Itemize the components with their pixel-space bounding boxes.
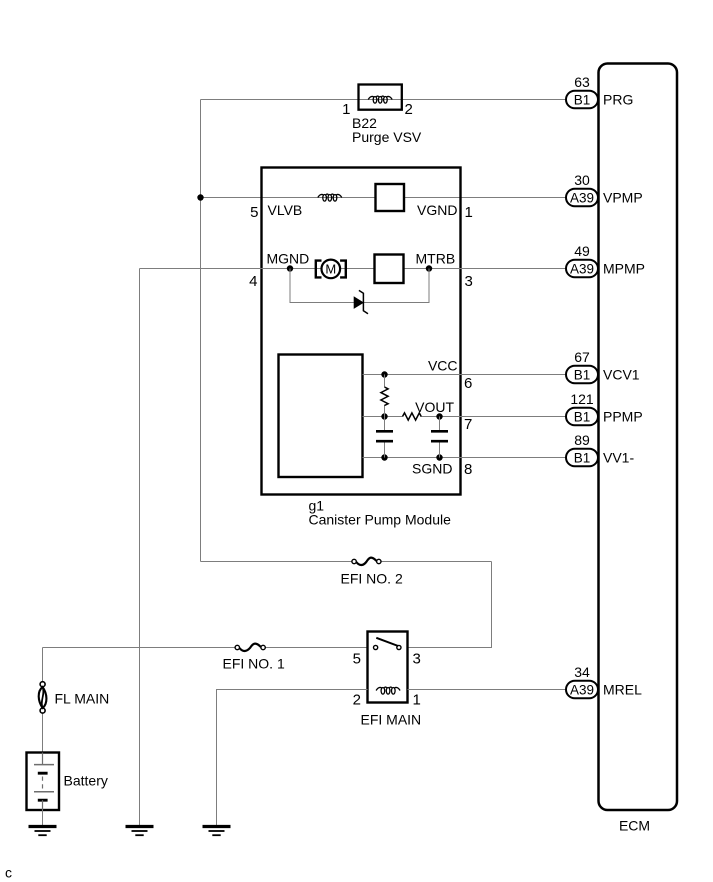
svg-text:PPMP: PPMP bbox=[603, 409, 643, 425]
svg-text:30: 30 bbox=[574, 172, 590, 188]
svg-text:A39: A39 bbox=[570, 190, 594, 205]
wire: MREL net relay pin 1 to ECM bbox=[408, 689, 567, 691]
svg-text:A39: A39 bbox=[570, 682, 594, 697]
junction VOUT right bbox=[436, 413, 442, 419]
svg-text:PRG: PRG bbox=[603, 92, 633, 108]
svg-text:2: 2 bbox=[353, 692, 361, 709]
svg-text:EFI MAIN: EFI MAIN bbox=[361, 712, 422, 728]
svg-text:EFI NO. 1: EFI NO. 1 bbox=[223, 656, 285, 672]
svg-text:3: 3 bbox=[413, 651, 421, 668]
connector pin A39-49 MPMP bbox=[566, 260, 598, 278]
svg-text:ECM: ECM bbox=[619, 818, 650, 834]
svg-text:B1: B1 bbox=[574, 450, 591, 465]
fusible link FL MAIN bbox=[39, 682, 47, 713]
junction VOUT left bbox=[381, 413, 387, 419]
svg-text:67: 67 bbox=[574, 349, 590, 365]
svg-text:2: 2 bbox=[405, 101, 413, 118]
svg-text:Battery: Battery bbox=[64, 773, 108, 789]
svg-text:4: 4 bbox=[249, 273, 257, 290]
svg-text:B1: B1 bbox=[574, 367, 591, 382]
fuse EFI NO. 1 bbox=[235, 644, 265, 651]
svg-text:5: 5 bbox=[250, 204, 258, 221]
svg-text:B1: B1 bbox=[574, 92, 591, 107]
svg-text:3: 3 bbox=[465, 273, 473, 290]
junction SGND right bbox=[436, 454, 442, 460]
relay switch contacts bbox=[374, 638, 402, 650]
connector pin A39-34 MREL bbox=[566, 681, 598, 699]
resistor divider vertical bbox=[381, 387, 388, 406]
pressure sensor block inside module bbox=[279, 355, 363, 478]
fuse EFI NO. 2 bbox=[352, 558, 381, 565]
pump motor M bbox=[316, 260, 346, 279]
connector pin B1-67 VCV1 bbox=[566, 366, 598, 384]
ECM box bbox=[599, 64, 678, 811]
wire: relay coil pin 2 to ground bbox=[217, 690, 368, 827]
connector pin B1-89 VV1- bbox=[566, 449, 598, 467]
wire: motor bypass loop bbox=[290, 269, 354, 303]
svg-text:34: 34 bbox=[574, 664, 590, 680]
wire: divider branch VCC to VOUT bbox=[384, 375, 386, 388]
wire: EFI NO. 1 circuit from FL MAIN bus to relay pin 5 bbox=[43, 647, 236, 649]
connector pin B1-121 PPMP bbox=[566, 408, 598, 426]
svg-text:MREL: MREL bbox=[603, 682, 642, 698]
svg-text:VV1-: VV1- bbox=[603, 450, 634, 466]
svg-text:Canister Pump Module: Canister Pump Module bbox=[309, 512, 452, 528]
svg-text:63: 63 bbox=[574, 74, 590, 90]
motor driver block square MTRB bbox=[375, 255, 404, 284]
svg-text:M: M bbox=[325, 262, 336, 277]
wire: MGND net from ground bus through pump motor to MTRB / ECM MPMP bbox=[140, 268, 567, 270]
svg-text:FL MAIN: FL MAIN bbox=[55, 691, 110, 707]
wire: EFI NO. 2 circuit from bus to relay pin 3 bbox=[201, 561, 355, 563]
capacitor left bbox=[376, 431, 393, 441]
connector pin B1-63 PRG bbox=[566, 91, 598, 109]
wire: SGND net from sensor block to ECM VV1- bbox=[363, 457, 567, 459]
svg-text:8: 8 bbox=[464, 461, 472, 478]
junction MTRB node bbox=[426, 265, 432, 271]
svg-text:VPMP: VPMP bbox=[603, 190, 643, 206]
svg-text:VLVB: VLVB bbox=[268, 202, 303, 218]
zener diode motor suppressor bbox=[354, 290, 368, 313]
svg-text:EFI NO. 2: EFI NO. 2 bbox=[341, 571, 403, 587]
svg-text:VCC: VCC bbox=[428, 358, 458, 374]
junction VCC divider tap bbox=[381, 371, 387, 377]
wire: right capacitor branch bbox=[439, 417, 441, 431]
svg-text:MPMP: MPMP bbox=[603, 261, 645, 277]
solenoid B22 coil bbox=[368, 96, 392, 103]
valve block square VGND bbox=[376, 184, 405, 211]
svg-text:1: 1 bbox=[413, 692, 421, 709]
ground at battery bbox=[29, 827, 57, 836]
wire: VLVB net from bus to canister pump module pin 5 and on to VGND / ECM VPMP bbox=[201, 197, 567, 199]
junction: bus tap to VLVB bbox=[197, 194, 203, 200]
ground at relay coil bbox=[203, 827, 231, 836]
relay coil bbox=[376, 687, 400, 694]
wire: MGND ground drop vertical bbox=[139, 269, 141, 827]
wire: FL MAIN vertical from EFI NO.1 wire to battery bbox=[42, 648, 44, 682]
svg-text:VOUT: VOUT bbox=[415, 399, 454, 415]
svg-text:5: 5 bbox=[353, 651, 361, 668]
canister pump module box g1 bbox=[262, 168, 461, 495]
svg-text:c: c bbox=[5, 865, 12, 881]
connector pin A39-30 VPMP bbox=[566, 189, 598, 207]
junction SGND left bbox=[381, 454, 387, 460]
junction MGND node bbox=[287, 265, 293, 271]
battery box bbox=[27, 753, 60, 811]
valve solenoid coil on VLVB line inside module bbox=[318, 194, 342, 201]
wire: left capacitor branch bbox=[384, 417, 386, 431]
svg-text:B1: B1 bbox=[574, 409, 591, 424]
capacitor right bbox=[431, 431, 448, 441]
ground at MGND drop bbox=[126, 827, 154, 836]
svg-text:1: 1 bbox=[465, 204, 473, 221]
svg-text:6: 6 bbox=[464, 375, 472, 392]
wire: battery+ feed from left vertical bus to B22 / purge VSV net PRG bbox=[201, 99, 567, 101]
wire: VCC net from sensor block to ECM VCV1 bbox=[363, 374, 567, 376]
svg-text:MTRB: MTRB bbox=[416, 251, 456, 267]
svg-text:121: 121 bbox=[570, 391, 594, 407]
svg-text:A39: A39 bbox=[570, 261, 594, 276]
svg-text:MGND: MGND bbox=[267, 251, 310, 267]
svg-text:7: 7 bbox=[464, 416, 472, 433]
svg-text:Purge VSV: Purge VSV bbox=[352, 129, 422, 145]
solenoid B22 purge VSV box bbox=[359, 85, 402, 110]
svg-text:VGND: VGND bbox=[417, 202, 457, 218]
svg-text:49: 49 bbox=[574, 243, 590, 259]
svg-text:VCV1: VCV1 bbox=[603, 367, 640, 383]
wire: main feed vertical bus from PRG wire down to EFI NO. 2 wire bbox=[200, 100, 202, 562]
svg-text:1: 1 bbox=[342, 101, 350, 118]
svg-text:SGND: SGND bbox=[412, 461, 452, 477]
resistor in VOUT line bbox=[403, 413, 422, 420]
wire: VOUT net from sensor block to ECM PPMP bbox=[363, 416, 403, 418]
svg-text:89: 89 bbox=[574, 432, 590, 448]
wire: battery negative to ground bbox=[42, 810, 44, 827]
relay EFI MAIN box bbox=[368, 632, 408, 703]
battery internals bbox=[34, 753, 54, 811]
